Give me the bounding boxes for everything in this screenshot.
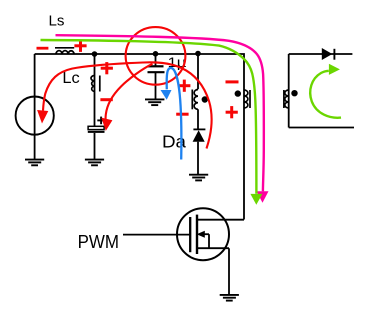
red polarity minus (Ls left): [37, 47, 49, 50]
node B: [153, 51, 159, 57]
secondary loop left wire: [288, 54, 290, 128]
node C: [195, 51, 201, 57]
red arrow into Lc capacitor: [106, 64, 153, 120]
phase dot switch winding: [235, 90, 241, 96]
capacitor 1u: [148, 65, 164, 67]
magenta flux path: [56, 35, 264, 191]
svg-text:Da: Da: [162, 132, 186, 152]
wire Da branch middle: [197, 109, 199, 129]
wire 1u branch upper: [155, 54, 157, 66]
red polarity minus (switch winding top): [226, 80, 239, 83]
svg-text:Lc: Lc: [62, 70, 79, 87]
inductor Ls: [55, 48, 74, 54]
red current loop arrow (input loop): [43, 62, 212, 148]
current source I1: [16, 97, 54, 135]
phase dot secondary: [291, 90, 297, 96]
transformer winding (switch side): [244, 90, 250, 108]
node A: [92, 51, 98, 57]
ground (Lc branch): [85, 160, 104, 166]
diode D2 (secondary): [322, 48, 333, 60]
svg-text:PWM: PWM: [78, 231, 119, 252]
wire Lc branch upper: [94, 54, 96, 127]
diode Da: [193, 128, 205, 130]
red polarity plus (Lc top): [101, 62, 113, 74]
red polarity minus (Lc bottom): [100, 98, 112, 101]
MOSFET Q1: [177, 208, 244, 260]
ground (current source): [25, 160, 44, 166]
wire Da branch upper: [197, 54, 199, 89]
capacitor C1 (polarized, Lc branch): [88, 117, 105, 132]
secondary loop top wire: [289, 53, 353, 55]
red polarity plus (primary top): [178, 80, 190, 92]
blue current arrow (Da loop): [167, 68, 182, 160]
red polarity plus (Ls right): [74, 40, 86, 52]
wire gate: [123, 234, 190, 236]
wire left vertical: [34, 54, 36, 159]
transformer primary winding: [192, 90, 198, 110]
ground (1u capacitor): [145, 99, 164, 105]
secondary loop bottom wire: [289, 127, 354, 129]
red loop circle: [126, 27, 186, 85]
green flux path: [41, 40, 257, 194]
wire Da branch lower: [197, 142, 199, 175]
body arrow: [197, 231, 205, 238]
wire right branch vertical: [243, 54, 246, 220]
red polarity minus (primary bottom): [176, 113, 188, 116]
red polarity plus (switch winding bottom): [226, 106, 238, 118]
transformer secondary winding: [284, 90, 289, 108]
ground (Da branch): [189, 175, 208, 181]
green secondary current loop arrow: [310, 71, 341, 118]
ground (MOSFET source): [220, 295, 239, 301]
inductor Lc: [91, 76, 100, 92]
wire Lc branch lower: [94, 133, 96, 159]
svg-text:Ls: Ls: [49, 14, 65, 30]
wire top rail: [35, 53, 244, 55]
phase dot primary: [202, 96, 208, 102]
wire 1u branch lower: [155, 73, 157, 99]
wire source down: [228, 248, 230, 294]
